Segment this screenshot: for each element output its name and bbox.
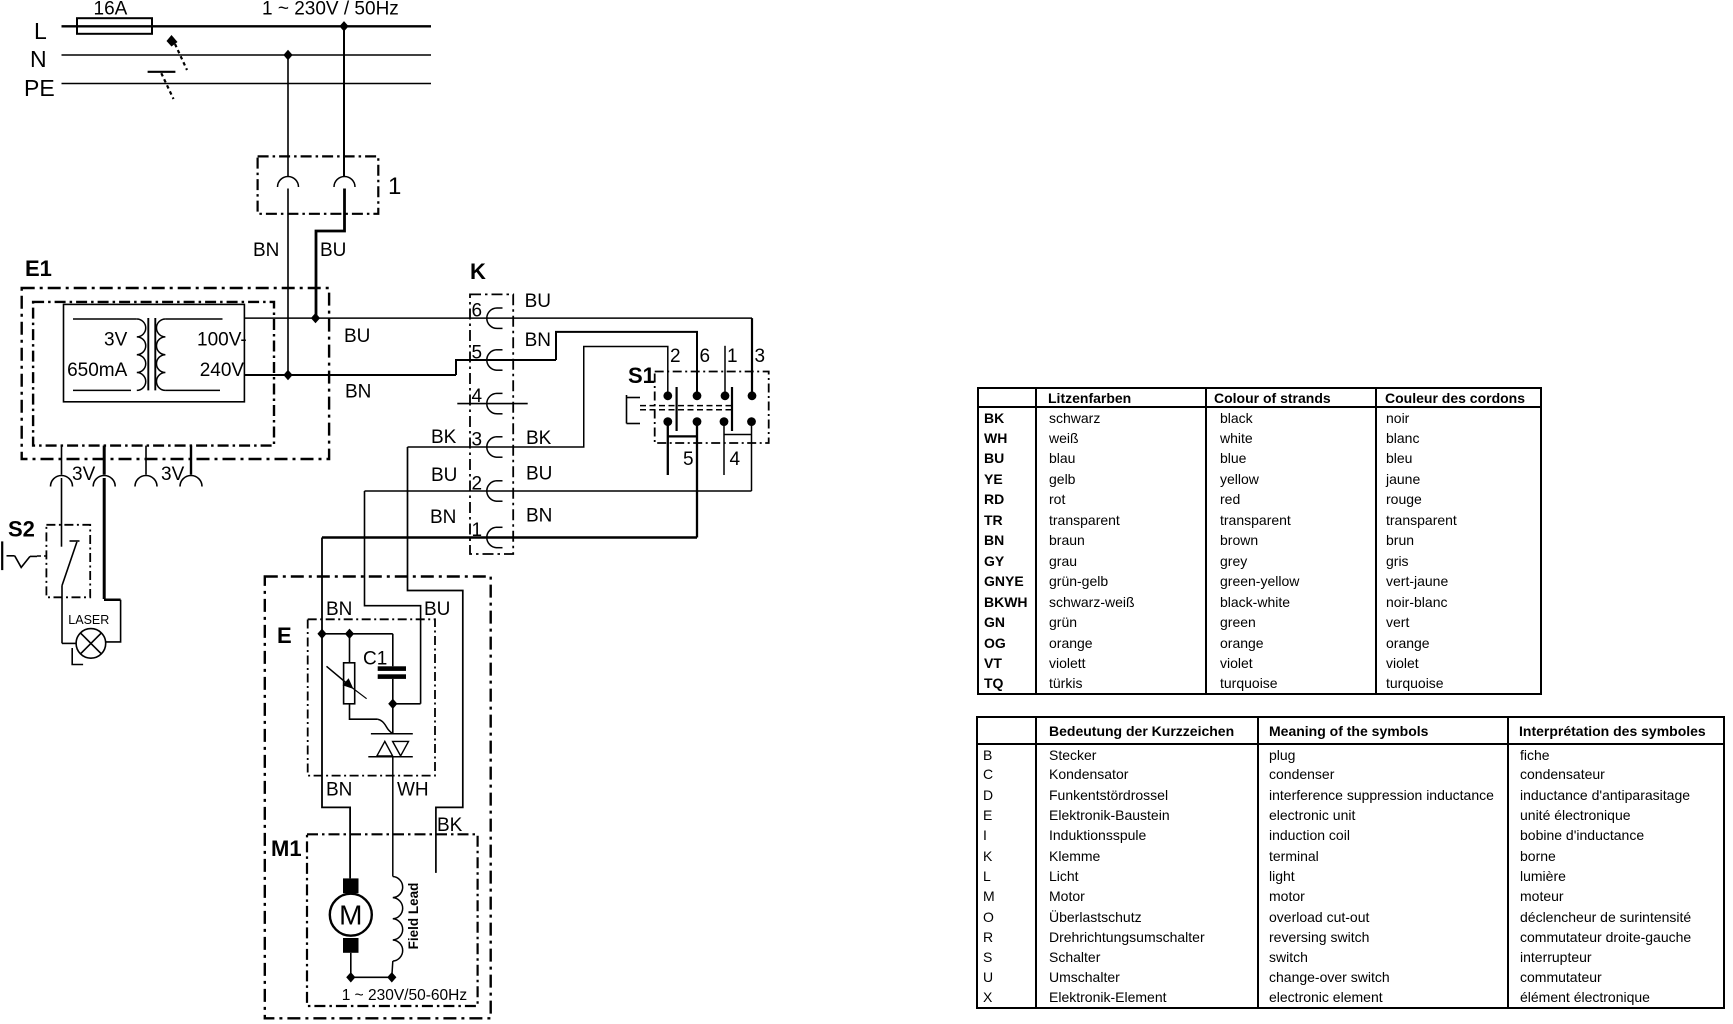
terminal strip K box — [470, 294, 513, 554]
wire K4 stub — [457, 403, 527, 405]
svg-text:S2: S2 — [8, 517, 35, 542]
node L tap — [339, 21, 348, 31]
svg-text:6: 6 — [472, 301, 483, 322]
terminal K1 — [487, 527, 497, 547]
svg-text:N: N — [30, 46, 47, 72]
S1 top contact — [663, 391, 672, 400]
contact 3V d — [180, 476, 202, 487]
svg-text:BU: BU — [525, 291, 551, 312]
svg-text:BN: BN — [525, 330, 551, 351]
capacitor C1 plate bottom — [378, 674, 406, 679]
motor M1 box — [307, 834, 478, 1006]
wire S1 pin4 blade stub — [723, 422, 725, 475]
wire S1 pin5 blade stub — [667, 422, 669, 475]
machine enclosure box — [265, 577, 491, 1019]
electronic unit E box — [308, 619, 435, 775]
contact 3V b — [93, 476, 115, 487]
contact 3V a — [51, 476, 73, 487]
svg-text:BK: BK — [431, 427, 457, 448]
svg-text:S1: S1 — [628, 363, 655, 388]
svg-text:M1: M1 — [271, 836, 302, 861]
svg-text:L: L — [34, 18, 47, 44]
svg-text:BN: BN — [326, 599, 352, 620]
E1 outer enclosure box — [22, 288, 329, 459]
S1 bottom contact — [663, 417, 672, 426]
node E b — [345, 629, 354, 639]
plug contact right — [334, 177, 355, 188]
S1 coupling line a — [640, 405, 733, 407]
diac V1 — [371, 733, 413, 735]
wire coil bottom — [392, 961, 393, 977]
wire PE line — [62, 83, 432, 85]
S1 top contact — [748, 391, 757, 400]
svg-text:100V-: 100V- — [197, 330, 247, 351]
table meaning of symbols — [976, 716, 1725, 1009]
node coil — [387, 972, 396, 982]
S1 coupling line b — [640, 409, 733, 411]
svg-text:6: 6 — [700, 346, 711, 367]
wire L down to plug — [343, 26, 345, 176]
transformer T1 box — [64, 304, 245, 401]
svg-text:1 ~ 230V / 50Hz: 1 ~ 230V / 50Hz — [262, 0, 399, 20]
switch actuator bar — [148, 71, 176, 73]
svg-text:Field Lead: Field Lead — [406, 883, 421, 950]
svg-text:1: 1 — [727, 346, 738, 367]
wire 3V to S2 — [61, 478, 63, 547]
terminal K2 — [487, 481, 497, 501]
node BU junction — [311, 313, 320, 323]
E1 inner box — [33, 302, 274, 446]
wire C1 top — [392, 634, 394, 667]
S1 top contact — [721, 391, 730, 400]
wire BN jog into K5 — [456, 360, 556, 375]
wire BU plug to E1 — [316, 189, 345, 319]
terminal K3 — [487, 437, 497, 457]
S1 blade right — [731, 387, 733, 431]
resistor R1 arrow — [327, 666, 348, 683]
terminal K4 — [487, 393, 497, 413]
svg-text:1: 1 — [388, 173, 401, 200]
svg-text:3V: 3V — [161, 464, 185, 485]
wire S2 to lamp — [61, 586, 63, 644]
svg-text:3V: 3V — [72, 464, 96, 485]
node BN junction — [283, 370, 292, 380]
wire L line — [62, 25, 432, 27]
svg-text:BU: BU — [424, 599, 450, 620]
wire WH diac to field coil — [392, 757, 394, 877]
plug connector 1 box — [258, 156, 379, 213]
svg-text:E: E — [277, 623, 292, 648]
wire to R1 — [349, 634, 351, 663]
svg-text:BU: BU — [344, 326, 370, 347]
svg-text:BU: BU — [320, 240, 346, 261]
svg-text:BU: BU — [431, 465, 457, 486]
svg-text:5: 5 — [683, 449, 694, 470]
wire K2 to S1 pin4 BU — [365, 490, 752, 492]
svg-text:BK: BK — [437, 815, 463, 836]
svg-text:3: 3 — [755, 346, 766, 367]
fuse F1 16A — [77, 18, 152, 34]
wire N down to plug — [287, 55, 289, 176]
terminal K5 — [487, 350, 497, 370]
node E a — [317, 629, 326, 639]
wire S1 pin1 stub — [724, 346, 726, 396]
svg-text:2: 2 — [670, 346, 681, 367]
transformer T1 secondary winding — [165, 318, 222, 320]
wire BN K1 to motor — [322, 538, 350, 879]
switch S2 manual actuator — [1, 541, 3, 570]
svg-text:PE: PE — [24, 75, 55, 101]
wire E internal top — [322, 633, 393, 635]
svg-text:3V: 3V — [104, 330, 128, 351]
wire BN plug to E1 — [287, 189, 289, 376]
node C1/diac — [388, 699, 397, 709]
wire S1 pin5 bar — [668, 435, 697, 437]
wire S1 pin5 down to K1 — [696, 422, 698, 538]
wire to diac gate — [378, 719, 393, 734]
motor brush bottom — [343, 938, 359, 953]
wire R1 bottom — [350, 704, 378, 719]
motor brush top — [343, 878, 359, 893]
S1 bottom contact — [747, 417, 756, 426]
plug contact left — [278, 177, 299, 188]
svg-text:16A: 16A — [94, 0, 128, 20]
wire E1 output bottom BN — [244, 374, 456, 376]
node motor — [346, 972, 355, 982]
switch S1 box — [655, 372, 769, 444]
wire to diac — [392, 704, 394, 734]
wire BK K3 to M1 — [408, 447, 463, 873]
svg-text:BN: BN — [430, 507, 456, 528]
svg-text:WH: WH — [397, 780, 429, 801]
wire 3V to laser — [103, 478, 106, 599]
motor M1 — [330, 894, 372, 936]
wire K6 net to S1 pin3 — [751, 318, 753, 396]
svg-text:LASER: LASER — [68, 613, 109, 627]
resistor R1 adjustable — [344, 663, 355, 704]
S1 bottom contact — [720, 417, 729, 426]
node N tap — [283, 50, 292, 60]
svg-text:BN: BN — [326, 780, 352, 801]
wire C1 bottom — [392, 679, 394, 704]
transformer T1 primary winding — [73, 318, 137, 320]
wire S1 pin4 down — [751, 422, 753, 491]
wire E1 output top to K6 and S1 pin3 — [244, 317, 752, 319]
svg-text:K: K — [470, 259, 486, 284]
wire to BU branch — [393, 703, 421, 705]
wire motor to coil — [351, 976, 392, 978]
wire K3 to S1 pin2 BK — [408, 347, 668, 448]
svg-text:BU: BU — [526, 464, 552, 485]
S1 actuator bracket — [626, 395, 628, 424]
S1 top contact — [693, 391, 702, 400]
S1 blade left — [675, 387, 677, 431]
wire BU K2 to E unit — [365, 491, 421, 704]
S1 bottom contact — [693, 417, 702, 426]
svg-text:M: M — [339, 900, 362, 931]
table colour of strands — [977, 387, 1542, 695]
transformer T1 core — [147, 318, 149, 390]
switch S2 box — [46, 525, 90, 598]
wire N line — [62, 54, 432, 56]
lamp LASER housing — [104, 598, 121, 601]
switch S2 blade — [62, 542, 77, 586]
svg-text:1 ~ 230V/50-60Hz: 1 ~ 230V/50-60Hz — [342, 987, 467, 1004]
wire K5 to S1 pin6 — [556, 332, 697, 396]
svg-text:BK: BK — [526, 428, 552, 449]
inductor field coil — [393, 877, 403, 962]
contact 3V c — [135, 476, 157, 487]
wire motor to node — [350, 953, 352, 978]
capacitor C1 plate top — [378, 666, 406, 671]
switch actuator arrow — [167, 35, 178, 47]
terminal K6 — [487, 308, 497, 328]
svg-text:BN: BN — [345, 382, 371, 403]
svg-text:BN: BN — [253, 240, 279, 261]
svg-text:BN: BN — [526, 506, 552, 527]
svg-text:4: 4 — [730, 449, 741, 470]
svg-text:E1: E1 — [25, 256, 52, 281]
E1 3V output stubs — [61, 446, 63, 475]
svg-text:240V: 240V — [200, 360, 245, 381]
svg-text:650mA: 650mA — [67, 360, 128, 381]
lamp L1 circle with cross — [76, 629, 106, 659]
wire S1 pin4 bar — [724, 434, 752, 436]
wire K1 to S1 pin5 BN — [322, 536, 697, 538]
